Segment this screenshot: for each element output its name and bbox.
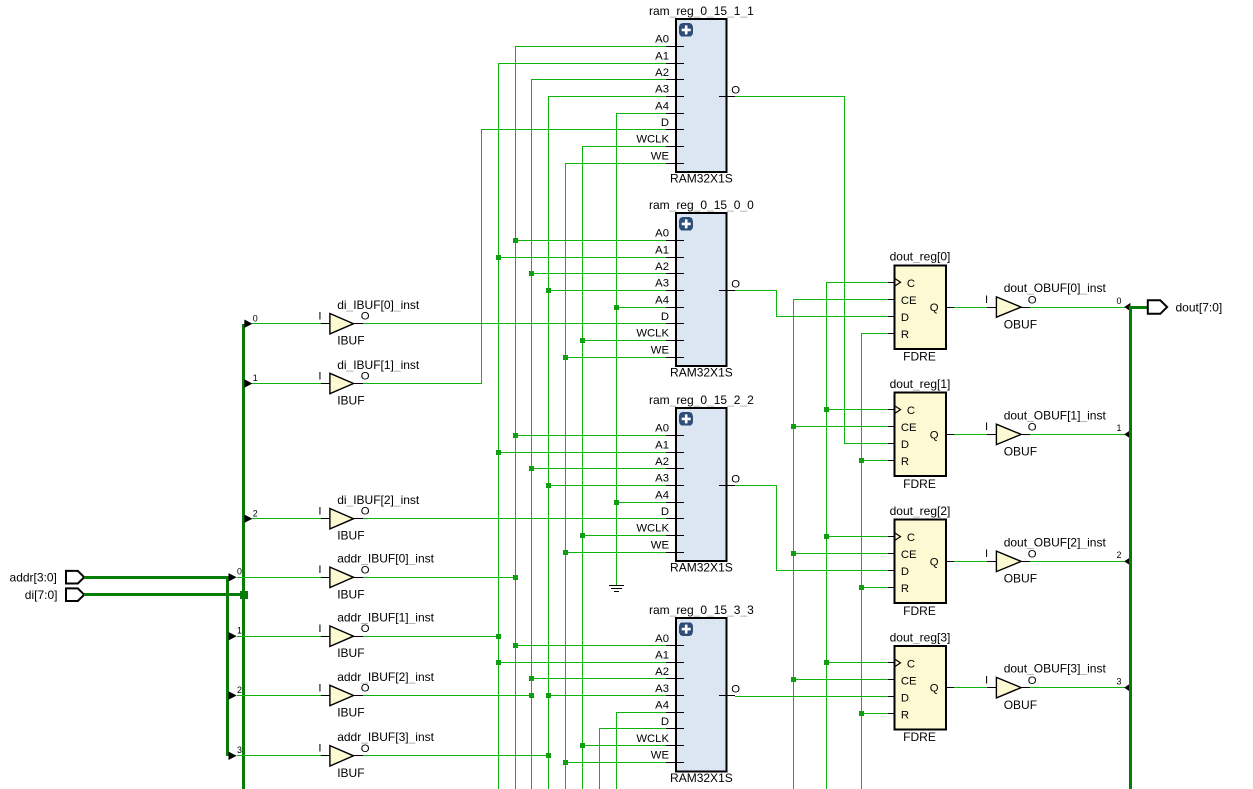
svg-text:O: O bbox=[361, 506, 370, 518]
bus tap arrow dout[0] bbox=[1116, 296, 1130, 311]
wire net di_IBUF[0] to RAM2.D bbox=[363, 323, 666, 325]
svg-text:Q: Q bbox=[930, 556, 939, 568]
wire net RAM3.O to FDRE2.D bbox=[735, 485, 888, 571]
buffer dout_OBUF[0]_inst (OBUF) bbox=[985, 281, 1106, 331]
svg-text:I: I bbox=[318, 311, 321, 323]
pin A3 bbox=[666, 695, 684, 697]
svg-text:C: C bbox=[907, 405, 915, 417]
pin A4 bbox=[666, 502, 684, 504]
buffer addr_IBUF[1]_inst (IBUF) bbox=[318, 611, 434, 661]
pin A2 bbox=[666, 79, 684, 81]
pin C bbox=[888, 282, 894, 284]
svg-text:ram_reg_0_15_0_0: ram_reg_0_15_0_0 bbox=[649, 198, 754, 212]
junction bbox=[791, 424, 796, 429]
wire net RAM4.O to FDRE3.D bbox=[735, 696, 888, 698]
wire net OBUF1 to dout bus bbox=[1030, 434, 1125, 436]
svg-text:0: 0 bbox=[237, 567, 242, 577]
svg-text:O: O bbox=[361, 311, 370, 323]
junction bbox=[496, 255, 501, 260]
pin CE bbox=[888, 553, 894, 555]
svg-text:O: O bbox=[361, 683, 370, 695]
svg-text:I: I bbox=[318, 564, 321, 576]
svg-text:A2: A2 bbox=[655, 456, 669, 468]
svg-text:FDRE: FDRE bbox=[903, 477, 936, 491]
junction bbox=[563, 355, 568, 360]
svg-text:C: C bbox=[907, 659, 915, 671]
svg-text:dout_OBUF[1]_inst: dout_OBUF[1]_inst bbox=[1004, 408, 1107, 422]
junction bbox=[513, 433, 518, 438]
svg-text:R: R bbox=[901, 456, 909, 468]
wire net di_IBUF[2] to RAM3.D bbox=[363, 518, 666, 520]
bus wire addr[3:0] bbox=[84, 576, 229, 756]
bus tap arrow addr[3] bbox=[229, 745, 243, 760]
wire rail net addr_IBUF[3] / A3 bbox=[363, 96, 666, 789]
svg-text:IBUF: IBUF bbox=[337, 529, 364, 543]
svg-text:1: 1 bbox=[237, 626, 242, 636]
svg-text:I: I bbox=[318, 370, 321, 382]
svg-text:A0: A0 bbox=[655, 633, 669, 645]
wire net FDRE1.Q to OBUF bbox=[954, 434, 987, 436]
svg-text:A1: A1 bbox=[655, 244, 669, 256]
svg-text:ram_reg_0_15_2_2: ram_reg_0_15_2_2 bbox=[649, 393, 754, 407]
svg-text:di_IBUF[2]_inst: di_IBUF[2]_inst bbox=[337, 493, 420, 507]
junction bbox=[496, 634, 501, 639]
pin D bbox=[666, 129, 684, 131]
pin A4 bbox=[666, 712, 684, 714]
svg-text:addr_IBUF[3]_inst: addr_IBUF[3]_inst bbox=[337, 730, 434, 744]
junction bbox=[824, 407, 829, 412]
bus tap arrow addr[0] bbox=[229, 567, 243, 582]
svg-text:IBUF: IBUF bbox=[337, 706, 364, 720]
svg-text:dout[7:0]: dout[7:0] bbox=[1176, 300, 1223, 314]
wire rail net R (reset) bbox=[861, 333, 888, 789]
svg-text:A3: A3 bbox=[655, 278, 669, 290]
svg-text:D: D bbox=[661, 716, 669, 728]
pin Q bbox=[946, 307, 954, 309]
pin WE bbox=[666, 163, 684, 165]
RAM32X1S ram_reg_0_15_0_0 bbox=[636, 198, 754, 380]
buffer di_IBUF[0]_inst (IBUF) bbox=[318, 298, 420, 348]
svg-text:IBUF: IBUF bbox=[337, 394, 364, 408]
svg-text:addr_IBUF[2]_inst: addr_IBUF[2]_inst bbox=[337, 670, 434, 684]
bus tap arrow dout[3] bbox=[1116, 676, 1130, 691]
svg-text:O: O bbox=[731, 473, 740, 485]
wire di[0] tap to IBUF bbox=[252, 323, 321, 325]
svg-text:addr_IBUF[1]_inst: addr_IBUF[1]_inst bbox=[337, 611, 434, 625]
pin R bbox=[888, 460, 894, 462]
svg-text:R: R bbox=[901, 710, 909, 722]
pin D bbox=[888, 316, 894, 318]
wire net FDRE0.Q to OBUF bbox=[954, 307, 987, 309]
svg-text:dout_reg[1]: dout_reg[1] bbox=[890, 377, 951, 391]
junction bbox=[824, 660, 829, 665]
pin O bbox=[719, 485, 735, 487]
buffer dout_OBUF[2]_inst (OBUF) bbox=[985, 535, 1106, 585]
pin A0 bbox=[666, 46, 684, 48]
svg-text:addr_IBUF[0]_inst: addr_IBUF[0]_inst bbox=[337, 552, 434, 566]
svg-text:O: O bbox=[731, 278, 740, 290]
pin A2 bbox=[666, 678, 684, 680]
svg-text:OBUF: OBUF bbox=[1004, 317, 1037, 331]
junction bbox=[580, 743, 585, 748]
svg-text:O: O bbox=[731, 684, 740, 696]
wire di[1] tap to IBUF bbox=[252, 383, 321, 385]
RAM32X1S ram_reg_0_15_1_1 bbox=[636, 4, 754, 186]
wire rail net WCLK bbox=[582, 146, 666, 789]
flip-flop dout_reg[0] (FDRE) bbox=[888, 250, 954, 364]
svg-text:A0: A0 bbox=[655, 423, 669, 435]
wire net OBUF3 to dout bus bbox=[1030, 687, 1125, 689]
svg-text:I: I bbox=[318, 623, 321, 635]
svg-text:D: D bbox=[661, 117, 669, 129]
wire rail net D (RAM4, from di_IBUF[3] below) bbox=[599, 729, 666, 789]
svg-text:1: 1 bbox=[253, 373, 258, 383]
svg-text:WCLK: WCLK bbox=[636, 134, 669, 146]
junction bbox=[529, 466, 534, 471]
bus tap arrow di[0] bbox=[244, 313, 257, 328]
pin D bbox=[666, 323, 684, 325]
junction bbox=[563, 550, 568, 555]
svg-text:A4: A4 bbox=[655, 700, 669, 712]
pin O bbox=[719, 290, 735, 292]
pin D bbox=[888, 570, 894, 572]
svg-text:O: O bbox=[361, 564, 370, 576]
svg-text:Q: Q bbox=[930, 429, 939, 441]
svg-text:D: D bbox=[901, 693, 909, 705]
wire rail net A4 (lower, RAM4) bbox=[616, 712, 666, 789]
svg-text:A2: A2 bbox=[655, 261, 669, 273]
pin A3 bbox=[666, 485, 684, 487]
wire rail net clk (FDRE C) bbox=[826, 282, 888, 789]
svg-text:dout_OBUF[3]_inst: dout_OBUF[3]_inst bbox=[1004, 662, 1107, 676]
pin A1 bbox=[666, 257, 684, 259]
svg-text:I: I bbox=[985, 421, 988, 433]
svg-text:O: O bbox=[361, 371, 370, 383]
svg-text:OBUF: OBUF bbox=[1004, 445, 1037, 459]
junction bbox=[546, 288, 551, 293]
svg-text:dout_reg[0]: dout_reg[0] bbox=[890, 250, 951, 264]
junction bbox=[529, 693, 534, 698]
svg-text:A3: A3 bbox=[655, 84, 669, 96]
svg-text:dout_reg[3]: dout_reg[3] bbox=[890, 630, 951, 644]
flip-flop dout_reg[1] (FDRE) bbox=[888, 377, 954, 491]
svg-text:OBUF: OBUF bbox=[1004, 698, 1037, 712]
svg-text:A1: A1 bbox=[655, 50, 669, 62]
svg-text:IBUF: IBUF bbox=[337, 587, 364, 601]
wire net di_IBUF[1] to RAM1.D bbox=[363, 130, 666, 385]
junction bbox=[614, 500, 619, 505]
svg-text:I: I bbox=[318, 506, 321, 518]
junction bbox=[546, 483, 551, 488]
svg-text:D: D bbox=[901, 566, 909, 578]
wire addr[1] tap to IBUF bbox=[237, 636, 321, 638]
svg-text:O: O bbox=[1028, 294, 1037, 306]
RAM32X1S ram_reg_0_15_2_2 bbox=[636, 393, 754, 575]
svg-text:C: C bbox=[907, 532, 915, 544]
svg-text:O: O bbox=[1028, 422, 1037, 434]
svg-text:I: I bbox=[985, 674, 988, 686]
bus tap arrow dout[2] bbox=[1116, 550, 1130, 565]
svg-text:RAM32X1S: RAM32X1S bbox=[670, 561, 733, 575]
svg-text:3: 3 bbox=[1116, 676, 1121, 686]
bus tap arrow di[2] bbox=[244, 508, 257, 523]
pin R bbox=[888, 587, 894, 589]
svg-text:I: I bbox=[985, 294, 988, 306]
svg-text:A0: A0 bbox=[655, 228, 669, 240]
svg-text:A2: A2 bbox=[655, 666, 669, 678]
pin A3 bbox=[666, 96, 684, 98]
junction di bus corner bbox=[240, 591, 248, 599]
svg-text:O: O bbox=[361, 743, 370, 755]
pin WE bbox=[666, 762, 684, 764]
svg-text:A0: A0 bbox=[655, 34, 669, 46]
pin D bbox=[666, 728, 684, 730]
svg-text:WCLK: WCLK bbox=[636, 523, 669, 535]
svg-text:2: 2 bbox=[237, 685, 242, 695]
buffer di_IBUF[1]_inst (IBUF) bbox=[318, 358, 420, 408]
wire addr[0] tap to IBUF bbox=[237, 577, 321, 579]
junction bbox=[580, 338, 585, 343]
pin A0 bbox=[666, 435, 684, 437]
junction bbox=[859, 458, 864, 463]
svg-text:OBUF: OBUF bbox=[1004, 572, 1037, 586]
pin A1 bbox=[666, 452, 684, 454]
junction bbox=[529, 676, 534, 681]
svg-text:Q: Q bbox=[930, 683, 939, 695]
svg-text:O: O bbox=[731, 84, 740, 96]
svg-text:FDRE: FDRE bbox=[903, 350, 936, 364]
junction bbox=[496, 660, 501, 665]
wire net FDRE3.Q to OBUF bbox=[954, 687, 987, 689]
wire net FDRE2.Q to OBUF bbox=[954, 561, 987, 563]
svg-text:0: 0 bbox=[1116, 296, 1121, 306]
svg-text:CE: CE bbox=[901, 295, 917, 307]
svg-text:addr[3:0]: addr[3:0] bbox=[10, 571, 57, 585]
wire rail net addr_IBUF[2] / A2 bbox=[363, 80, 666, 789]
output port dout[7:0] bbox=[1148, 300, 1222, 314]
svg-text:IBUF: IBUF bbox=[337, 766, 364, 780]
pin A3 bbox=[666, 290, 684, 292]
pin CE bbox=[888, 299, 894, 301]
svg-text:A3: A3 bbox=[655, 473, 669, 485]
junction bbox=[791, 551, 796, 556]
wire addr[2] tap to IBUF bbox=[237, 695, 321, 697]
svg-text:D: D bbox=[901, 439, 909, 451]
svg-text:WCLK: WCLK bbox=[636, 328, 669, 340]
svg-text:WE: WE bbox=[651, 344, 670, 356]
svg-text:O: O bbox=[1028, 675, 1037, 687]
svg-text:RAM32X1S: RAM32X1S bbox=[670, 366, 733, 380]
pin A1 bbox=[666, 662, 684, 664]
pin WE bbox=[666, 552, 684, 554]
pin WCLK bbox=[666, 535, 684, 537]
wire net OBUF2 to dout bus bbox=[1030, 561, 1125, 563]
buffer addr_IBUF[3]_inst (IBUF) bbox=[318, 730, 434, 780]
svg-text:A3: A3 bbox=[655, 683, 669, 695]
svg-text:I: I bbox=[985, 548, 988, 560]
svg-text:Q: Q bbox=[930, 302, 939, 314]
pin A0 bbox=[666, 645, 684, 647]
pin O bbox=[719, 695, 735, 697]
svg-text:CE: CE bbox=[901, 422, 917, 434]
junction bbox=[513, 575, 518, 580]
svg-text:IBUF: IBUF bbox=[337, 334, 364, 348]
svg-text:D: D bbox=[661, 506, 669, 518]
junction bbox=[496, 450, 501, 455]
pin A2 bbox=[666, 468, 684, 470]
pin C bbox=[888, 662, 894, 664]
svg-text:0: 0 bbox=[253, 313, 258, 323]
pin D bbox=[888, 443, 894, 445]
buffer addr_IBUF[0]_inst (IBUF) bbox=[318, 552, 434, 602]
wire rail net ground / A4 (upper) bbox=[616, 113, 666, 585]
pin R bbox=[888, 713, 894, 715]
svg-text:FDRE: FDRE bbox=[903, 604, 936, 618]
pin WE bbox=[666, 357, 684, 359]
pin C bbox=[888, 536, 894, 538]
pin Q bbox=[946, 434, 954, 436]
svg-text:3: 3 bbox=[237, 745, 242, 755]
pin A0 bbox=[666, 240, 684, 242]
wire net RAM2.O to FDRE0.D bbox=[735, 290, 888, 317]
svg-text:O: O bbox=[1028, 549, 1037, 561]
pin CE bbox=[888, 426, 894, 428]
input port addr[3:0] bbox=[10, 571, 85, 585]
pin WCLK bbox=[666, 340, 684, 342]
bus tap arrow addr[1] bbox=[229, 626, 243, 641]
pin D bbox=[888, 696, 894, 698]
bus wire dout[7:0] bbox=[1130, 306, 1148, 789]
bus tap arrow dout[1] bbox=[1116, 423, 1130, 438]
junction bbox=[791, 677, 796, 682]
pin A4 bbox=[666, 307, 684, 309]
junction bbox=[824, 534, 829, 539]
svg-text:2: 2 bbox=[253, 508, 258, 518]
svg-text:dout_OBUF[0]_inst: dout_OBUF[0]_inst bbox=[1004, 281, 1107, 295]
pin O bbox=[719, 96, 735, 98]
svg-text:WE: WE bbox=[651, 750, 670, 762]
svg-text:R: R bbox=[901, 583, 909, 595]
junction bbox=[513, 643, 518, 648]
pin Q bbox=[946, 687, 954, 689]
svg-text:I: I bbox=[318, 682, 321, 694]
flip-flop dout_reg[2] (FDRE) bbox=[888, 504, 954, 618]
svg-text:D: D bbox=[661, 311, 669, 323]
ground bbox=[609, 586, 624, 592]
svg-text:R: R bbox=[901, 329, 909, 341]
svg-text:A1: A1 bbox=[655, 650, 669, 662]
svg-text:CE: CE bbox=[901, 676, 917, 688]
svg-text:I: I bbox=[318, 743, 321, 755]
svg-text:A2: A2 bbox=[655, 67, 669, 79]
junction bbox=[580, 533, 585, 538]
svg-text:A4: A4 bbox=[655, 489, 669, 501]
junction bbox=[513, 238, 518, 243]
svg-text:CE: CE bbox=[901, 549, 917, 561]
wire net OBUF0 to dout bus bbox=[1030, 307, 1125, 309]
svg-text:WE: WE bbox=[651, 150, 670, 162]
wire addr[3] tap to IBUF bbox=[237, 755, 321, 757]
svg-text:2: 2 bbox=[1116, 550, 1121, 560]
svg-text:1: 1 bbox=[1116, 423, 1121, 433]
junction bbox=[546, 753, 551, 758]
svg-text:FDRE: FDRE bbox=[903, 730, 936, 744]
buffer dout_OBUF[1]_inst (OBUF) bbox=[985, 408, 1106, 458]
pin D bbox=[666, 518, 684, 520]
pin WCLK bbox=[666, 146, 684, 148]
svg-text:WCLK: WCLK bbox=[636, 733, 669, 745]
pin WCLK bbox=[666, 745, 684, 747]
svg-text:D: D bbox=[901, 312, 909, 324]
svg-text:A4: A4 bbox=[655, 100, 669, 112]
junction bbox=[529, 271, 534, 276]
buffer di_IBUF[2]_inst (IBUF) bbox=[318, 493, 420, 543]
pin R bbox=[888, 333, 894, 335]
buffer addr_IBUF[2]_inst (IBUF) bbox=[318, 670, 434, 720]
pin Q bbox=[946, 561, 954, 563]
svg-text:A1: A1 bbox=[655, 439, 669, 451]
input port di[7:0] bbox=[25, 588, 84, 602]
wire rail net WE bbox=[565, 163, 666, 789]
svg-text:dout_OBUF[2]_inst: dout_OBUF[2]_inst bbox=[1004, 535, 1107, 549]
bus tap arrow addr[2] bbox=[229, 685, 243, 700]
flip-flop dout_reg[3] (FDRE) bbox=[888, 630, 954, 744]
svg-text:di_IBUF[0]_inst: di_IBUF[0]_inst bbox=[337, 298, 420, 312]
pin A2 bbox=[666, 273, 684, 275]
svg-text:dout_reg[2]: dout_reg[2] bbox=[890, 504, 951, 518]
svg-text:O: O bbox=[361, 623, 370, 635]
buffer dout_OBUF[3]_inst (OBUF) bbox=[985, 662, 1106, 712]
wire net RAM1.O to FDRE1.D bbox=[735, 96, 888, 444]
pin A1 bbox=[666, 63, 684, 65]
svg-text:A4: A4 bbox=[655, 294, 669, 306]
junction bbox=[614, 305, 619, 310]
svg-text:RAM32X1S: RAM32X1S bbox=[670, 172, 733, 186]
RAM32X1S ram_reg_0_15_3_3 bbox=[636, 603, 754, 785]
junction bbox=[859, 585, 864, 590]
svg-text:di_IBUF[1]_inst: di_IBUF[1]_inst bbox=[337, 358, 420, 372]
svg-text:WE: WE bbox=[651, 539, 670, 551]
bus tap arrow di[1] bbox=[244, 373, 257, 388]
pin C bbox=[888, 409, 894, 411]
wire rail net addr_IBUF[0] / A0 bbox=[363, 46, 666, 789]
pin A4 bbox=[666, 113, 684, 115]
junction bbox=[563, 760, 568, 765]
wire rail net CE bbox=[793, 299, 888, 789]
wire di[2] tap to IBUF bbox=[252, 518, 321, 520]
junction bbox=[546, 693, 551, 698]
svg-text:C: C bbox=[907, 278, 915, 290]
svg-text:ram_reg_0_15_1_1: ram_reg_0_15_1_1 bbox=[649, 4, 754, 18]
bus wire di[7:0] bbox=[84, 324, 245, 789]
svg-text:RAM32X1S: RAM32X1S bbox=[670, 771, 733, 785]
svg-text:di[7:0]: di[7:0] bbox=[25, 588, 58, 602]
svg-text:ram_reg_0_15_3_3: ram_reg_0_15_3_3 bbox=[649, 603, 754, 617]
junction bbox=[859, 711, 864, 716]
wire rail net addr_IBUF[1] / A1 bbox=[363, 63, 666, 789]
svg-text:IBUF: IBUF bbox=[337, 646, 364, 660]
pin CE bbox=[888, 679, 894, 681]
